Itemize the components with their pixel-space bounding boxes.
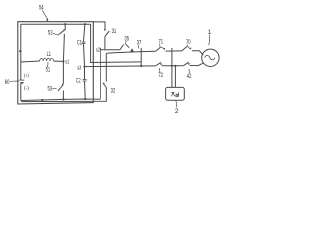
svg-text:1: 1 [208, 30, 212, 36]
svg-text:70: 70 [186, 40, 191, 46]
svg-text:37: 37 [137, 41, 142, 47]
svg-text:31: 31 [112, 29, 117, 35]
svg-text:60: 60 [5, 80, 10, 86]
svg-text:(-): (-) [24, 86, 29, 92]
svg-text:s2: s2 [96, 48, 100, 54]
svg-text:71: 71 [159, 40, 164, 46]
svg-text:54: 54 [39, 6, 44, 12]
svg-text:C1: C1 [77, 41, 82, 47]
svg-text:s1: s1 [65, 59, 69, 65]
svg-text:53: 53 [48, 87, 53, 93]
svg-text:52: 52 [48, 31, 53, 37]
svg-text:2: 2 [175, 108, 179, 115]
svg-text:C2: C2 [76, 79, 81, 85]
svg-text:42: 42 [187, 74, 192, 80]
svg-text:51: 51 [46, 67, 51, 73]
svg-text:L1: L1 [47, 52, 52, 58]
svg-text:35: 35 [124, 36, 129, 42]
svg-text:32: 32 [111, 88, 116, 94]
svg-text:72: 72 [158, 73, 163, 79]
svg-text:s3: s3 [77, 65, 81, 71]
svg-text:(+): (+) [24, 73, 29, 79]
